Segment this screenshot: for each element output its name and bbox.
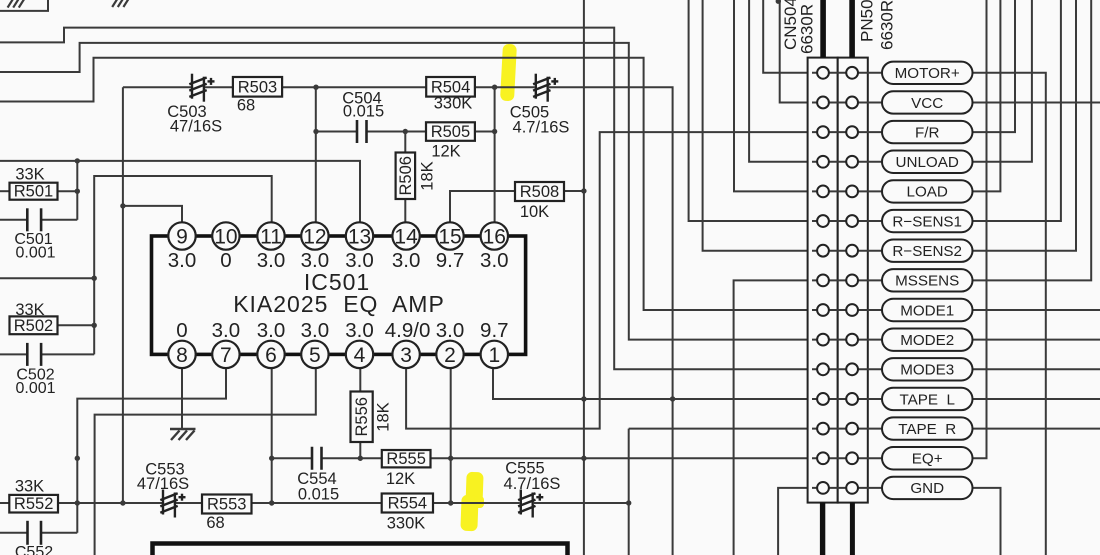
MODE2 label pill xyxy=(882,328,973,350)
svg-text:33K: 33K xyxy=(15,301,44,319)
capacitor C552 xyxy=(28,521,42,545)
wire R-SENS2 right xyxy=(973,0,1077,251)
svg-text:PN504: PN504 xyxy=(858,0,877,42)
svg-text:F/R: F/R xyxy=(915,124,939,141)
svg-text:16: 16 xyxy=(483,226,506,249)
capacitor C554 xyxy=(312,447,322,470)
GND label pill xyxy=(882,477,973,499)
node TAPE R row wire xyxy=(812,428,882,430)
wire C554 right to R555 xyxy=(322,457,382,459)
svg-text:3.0: 3.0 xyxy=(480,249,509,272)
svg-text:4.7/16S: 4.7/16S xyxy=(513,119,570,137)
capacitor C503 xyxy=(189,74,214,102)
wire pin 1 to TAPE L row xyxy=(493,368,818,399)
wire main top channel xyxy=(123,86,191,88)
svg-text:330K: 330K xyxy=(434,95,473,113)
junction dot top edge xyxy=(776,0,781,4)
resistor R504 xyxy=(426,77,475,97)
wire bus W3 (to MODE1) xyxy=(0,58,818,310)
node MSSENS row wire xyxy=(812,279,882,281)
wire R502 right xyxy=(58,324,95,326)
F/R label pill xyxy=(882,121,973,143)
wire UNLOAD right xyxy=(973,0,1032,162)
wire bottom channel c xyxy=(252,502,382,504)
svg-text:MODE2: MODE2 xyxy=(900,332,954,349)
wire bottom channel a xyxy=(58,502,162,504)
svg-text:9: 9 xyxy=(176,226,188,249)
resistor R554 xyxy=(382,494,433,513)
junction dot xyxy=(92,276,97,281)
wire pin 8 to ground xyxy=(181,368,183,429)
svg-text:3: 3 xyxy=(400,344,412,367)
wire MODE2 right xyxy=(973,339,1100,341)
junction dot xyxy=(313,129,318,134)
svg-text:MOTOR+: MOTOR+ xyxy=(895,65,960,82)
MODE1 contacts xyxy=(817,304,829,316)
wire main top channel c (to TAPE L vert) xyxy=(549,87,673,555)
wire F/R right xyxy=(973,0,1016,132)
wire R556 bottom xyxy=(359,442,361,458)
pin 7 xyxy=(212,341,239,368)
svg-text:0.015: 0.015 xyxy=(343,103,384,121)
wire TAPE R row xyxy=(629,428,818,430)
junction dot xyxy=(670,396,675,401)
wire R501 right xyxy=(58,190,78,192)
junction dot xyxy=(269,500,274,505)
junction dot xyxy=(492,129,497,134)
node R-SENS2 row wire xyxy=(812,250,882,252)
pin 8 xyxy=(168,341,195,368)
svg-text:R552: R552 xyxy=(14,495,53,513)
svg-text:3.0: 3.0 xyxy=(301,319,330,342)
MOTOR+ label pill xyxy=(882,62,973,84)
MODE1 label pill xyxy=(882,299,973,321)
wire bottom channel b xyxy=(176,502,202,504)
svg-text:VCC: VCC xyxy=(911,95,943,112)
wire stage2 vertical / pin 11 line xyxy=(94,176,272,354)
wire VCC right xyxy=(973,101,1100,103)
svg-text:0: 0 xyxy=(176,319,187,342)
svg-text:11: 11 xyxy=(260,226,282,249)
junction dot xyxy=(492,85,497,90)
wire MSSENS left xyxy=(734,280,818,555)
svg-text:68: 68 xyxy=(206,514,224,532)
svg-text:R506: R506 xyxy=(397,156,415,195)
pin 2 xyxy=(436,341,463,368)
capacitor C555 xyxy=(518,490,543,518)
svg-text:14: 14 xyxy=(394,226,418,249)
wire MODE1 right xyxy=(973,309,1100,311)
svg-text:7: 7 xyxy=(220,344,232,367)
pin 14 xyxy=(392,222,419,249)
junction dot xyxy=(75,189,80,194)
wire bottom channel d xyxy=(433,502,520,504)
junction dot xyxy=(581,456,586,461)
svg-text:12K: 12K xyxy=(386,470,415,488)
svg-text:12K: 12K xyxy=(431,143,460,161)
cable bar CN504 bottom xyxy=(820,503,825,555)
capacitor C553 xyxy=(160,490,185,518)
VCC contacts xyxy=(817,97,829,109)
LOAD label pill xyxy=(882,180,973,202)
svg-text:3.0: 3.0 xyxy=(212,319,241,342)
R-SENS2 label pill xyxy=(882,240,973,262)
wire node stage1 vertical xyxy=(76,161,78,220)
wire pin 12 vertical xyxy=(315,87,317,223)
svg-text:R553: R553 xyxy=(207,496,246,514)
resistor R555 xyxy=(382,450,431,467)
UNLOAD contacts xyxy=(817,156,829,168)
capacitor C504 xyxy=(357,120,367,143)
LOAD contacts xyxy=(817,186,829,198)
wire MSSENS right xyxy=(973,0,1092,280)
wire R-SENS2 left xyxy=(703,0,818,251)
svg-text:3.0: 3.0 xyxy=(392,249,421,272)
junction dot xyxy=(75,456,80,461)
junction dot xyxy=(313,85,318,90)
svg-text:2: 2 xyxy=(444,344,456,367)
resistor R556 xyxy=(351,392,373,443)
MOTOR+ contacts xyxy=(817,67,829,79)
R-SENS1 label pill xyxy=(882,210,973,232)
wire pin 9 feed xyxy=(123,206,182,223)
wire MODE3 right xyxy=(973,368,1100,370)
R-SENS2 contacts xyxy=(817,245,829,257)
svg-text:4.7/16S: 4.7/16S xyxy=(504,475,561,493)
wire pin 7 run xyxy=(77,368,226,533)
svg-text:LOAD: LOAD xyxy=(907,184,948,201)
MODE3 label pill xyxy=(882,358,973,380)
node MODE1 row wire xyxy=(812,309,882,311)
junction dot xyxy=(581,188,586,193)
wire VCC left xyxy=(780,0,818,102)
svg-text:1: 1 xyxy=(488,344,500,367)
EQ+ label pill xyxy=(882,447,973,469)
wire main top channel b xyxy=(205,86,535,88)
node R-SENS1 row wire xyxy=(812,220,882,222)
wire bottom channel e xyxy=(534,502,629,504)
wire R506 top xyxy=(404,132,406,153)
wire UNLOAD left xyxy=(749,0,818,162)
svg-text:GND: GND xyxy=(910,480,944,497)
node VCC row wire xyxy=(812,101,882,103)
wire C504 right xyxy=(367,131,427,133)
ground pin 8 xyxy=(170,429,196,440)
MSSENS contacts xyxy=(817,274,829,286)
wire C501 left xyxy=(0,219,27,221)
wire bus W1 (to MODE3) xyxy=(0,28,818,370)
pin 10 xyxy=(212,222,239,249)
junction dot xyxy=(448,500,453,505)
wire R508 right xyxy=(564,190,584,192)
svg-text:0.001: 0.001 xyxy=(15,245,55,262)
junction dot xyxy=(581,396,586,401)
pin 5 xyxy=(301,341,328,368)
ground hatch top-left 2 xyxy=(112,0,129,7)
svg-text:EQ+: EQ+ xyxy=(912,451,943,468)
svg-text:R−SENS2: R−SENS2 xyxy=(892,243,962,260)
wire feed to R502 node xyxy=(0,277,94,279)
wire C501 right xyxy=(41,219,77,221)
svg-text:18K: 18K xyxy=(375,402,393,431)
wire C504 line xyxy=(316,131,357,133)
svg-text:6: 6 xyxy=(265,344,277,367)
MSSENS label pill xyxy=(882,269,973,291)
svg-text:R501: R501 xyxy=(14,183,53,201)
node UNLOAD row wire xyxy=(812,161,882,163)
svg-text:3.0: 3.0 xyxy=(345,249,374,272)
wire R555 right to EQ+ row xyxy=(431,457,819,459)
junction dot xyxy=(626,500,631,505)
svg-text:R505: R505 xyxy=(431,123,470,141)
GND contacts xyxy=(817,482,829,494)
TAPE R label pill xyxy=(882,417,973,439)
TAPE R contacts xyxy=(817,423,829,435)
wire R552 left stub xyxy=(0,502,9,504)
svg-text:8: 8 xyxy=(176,344,188,367)
node MODE2 row wire xyxy=(812,339,882,341)
wire pin 15 to R508 xyxy=(450,191,515,223)
pin 12 xyxy=(301,222,328,249)
svg-text:15: 15 xyxy=(438,226,461,249)
svg-text:4.9/0: 4.9/0 xyxy=(385,319,431,342)
pin 16 xyxy=(481,222,508,249)
svg-text:MSSENS: MSSENS xyxy=(895,273,959,290)
svg-text:6630R: 6630R xyxy=(798,4,817,54)
node TAPE L row wire xyxy=(812,398,882,400)
MODE2 contacts xyxy=(817,334,829,346)
pin 9 xyxy=(168,222,195,249)
junction dot xyxy=(120,500,125,505)
svg-text:9.7: 9.7 xyxy=(436,249,465,272)
svg-text:33K: 33K xyxy=(15,478,44,496)
svg-text:330K: 330K xyxy=(387,515,426,533)
junction dot xyxy=(75,158,80,163)
svg-text:R555: R555 xyxy=(386,450,425,468)
wire GND right xyxy=(973,488,1001,555)
svg-text:18K: 18K xyxy=(419,161,437,190)
resistor R502 xyxy=(10,316,58,334)
svg-text:0: 0 xyxy=(220,249,231,272)
wire LOAD right xyxy=(973,0,1001,191)
node MOTOR+ row wire xyxy=(812,72,882,74)
svg-text:0.015: 0.015 xyxy=(298,486,339,504)
wire C552 right xyxy=(41,532,77,534)
capacitor C501 xyxy=(27,208,41,231)
resistor R552 xyxy=(9,495,58,513)
wire MOTOR+ right xyxy=(973,73,1046,555)
svg-text:MODE1: MODE1 xyxy=(900,302,954,319)
junction dot xyxy=(403,129,408,134)
op-amp IC501 box xyxy=(152,236,526,354)
svg-text:UNLOAD: UNLOAD xyxy=(896,154,959,171)
resistor R503 xyxy=(233,77,282,97)
cable bar CN504 top xyxy=(820,0,826,58)
svg-text:3.0: 3.0 xyxy=(436,319,465,342)
wire R-SENS1 left xyxy=(689,0,818,221)
svg-text:3.0: 3.0 xyxy=(257,319,286,342)
wire MOTOR+ left xyxy=(763,0,818,73)
cable bar PN504 bottom xyxy=(850,503,855,555)
wire pin 5 run xyxy=(95,368,316,555)
svg-text:R−SENS1: R−SENS1 xyxy=(892,213,962,230)
highlighter mark bottom xyxy=(465,472,483,509)
svg-text:MODE3: MODE3 xyxy=(900,362,954,379)
svg-text:3.0: 3.0 xyxy=(257,249,286,272)
VCC label pill xyxy=(882,91,973,113)
resistor R501 xyxy=(10,183,58,200)
wire pin 2 vertical xyxy=(450,368,452,503)
node LOAD row wire xyxy=(812,190,882,192)
svg-text:TAPE L: TAPE L xyxy=(899,391,954,408)
UNLOAD label pill xyxy=(882,151,973,173)
F/R contacts xyxy=(817,126,829,138)
svg-text:6630R: 6630R xyxy=(878,0,897,50)
cable bar PN504 top xyxy=(849,0,855,58)
svg-text:33K: 33K xyxy=(15,166,44,184)
TAPE L label pill xyxy=(882,388,973,410)
svg-text:R502: R502 xyxy=(14,317,53,335)
pin 13 xyxy=(346,222,373,249)
wire pin 4 to R556 xyxy=(359,368,361,392)
junction dot xyxy=(358,456,363,461)
wire C552 left xyxy=(0,532,28,534)
resistor R506 xyxy=(396,153,416,200)
capacitor C502 xyxy=(27,343,41,366)
wire R505 right xyxy=(475,131,495,133)
wire LOAD left xyxy=(734,0,818,191)
pin 15 xyxy=(436,222,463,249)
wire C502 right xyxy=(41,353,94,355)
svg-text:13: 13 xyxy=(348,226,371,249)
MODE3 contacts xyxy=(817,363,829,375)
svg-text:12: 12 xyxy=(303,226,326,249)
svg-text:KIA2025 EQ AMP: KIA2025 EQ AMP xyxy=(233,291,445,317)
svg-text:4: 4 xyxy=(354,344,366,367)
svg-text:47/16S: 47/16S xyxy=(170,118,222,136)
wire bus to pin 13 xyxy=(0,161,360,223)
node GND row wire xyxy=(812,487,882,489)
wire C502 left xyxy=(0,353,27,355)
wire EQ+ right xyxy=(973,0,987,458)
wire bus W2 (to MODE2) xyxy=(0,43,818,340)
svg-text:68: 68 xyxy=(237,97,255,115)
pin 11 xyxy=(257,222,284,249)
svg-text:TAPE R: TAPE R xyxy=(898,421,956,438)
wire pin 6 vertical xyxy=(271,368,273,503)
svg-text:9.7: 9.7 xyxy=(480,319,509,342)
svg-text:R554: R554 xyxy=(388,495,427,513)
wire R501 left stub xyxy=(0,190,10,192)
svg-text:10: 10 xyxy=(214,226,237,249)
wire GND left xyxy=(778,488,818,555)
junction dot xyxy=(92,323,97,328)
wire pin 16 vertical xyxy=(494,87,496,223)
svg-text:3.0: 3.0 xyxy=(301,249,330,272)
connector CN504 box left column xyxy=(808,58,838,503)
junction dot xyxy=(120,203,125,208)
junction dot xyxy=(75,500,80,505)
resistor R508 xyxy=(515,182,564,201)
partial box top-left xyxy=(0,0,48,11)
junction dot xyxy=(269,456,274,461)
pin 4 xyxy=(346,341,373,368)
svg-text:10K: 10K xyxy=(520,203,549,221)
junction dot xyxy=(448,456,453,461)
wire TAPE L right xyxy=(973,398,1100,400)
svg-text:3.0: 3.0 xyxy=(345,319,374,342)
TAPE L contacts xyxy=(817,393,829,405)
node MODE3 row wire xyxy=(812,368,882,370)
wire R-SENS1 right xyxy=(973,0,1061,221)
capacitor C505 xyxy=(533,74,558,102)
pin 3 xyxy=(392,341,419,368)
resistor R505 xyxy=(426,122,475,141)
svg-text:R503: R503 xyxy=(238,78,277,96)
wire C554 line xyxy=(272,457,312,459)
highlighter mark top xyxy=(460,44,517,532)
ground hatch top-left 1 xyxy=(8,0,25,8)
svg-text:C552: C552 xyxy=(15,544,53,555)
svg-text:5: 5 xyxy=(309,344,321,367)
svg-text:0.001: 0.001 xyxy=(15,380,55,397)
wire TAPE R right xyxy=(973,428,1100,430)
wire R506 bottom to pin 14 xyxy=(404,199,406,223)
svg-text:R556: R556 xyxy=(353,397,371,436)
EQ+ contacts xyxy=(817,452,829,464)
wire R508 node vertical xyxy=(583,0,585,555)
bottom IC box (partial) xyxy=(153,544,568,555)
resistor R553 xyxy=(202,495,252,514)
node EQ+ row wire xyxy=(812,457,882,459)
wire C503 left vertical xyxy=(122,87,124,503)
wire pin 3 to F/R xyxy=(406,132,818,429)
wire TAPE R net vertical xyxy=(628,429,630,555)
svg-text:R508: R508 xyxy=(520,183,559,201)
node F/R row wire xyxy=(812,131,882,133)
pin 1 xyxy=(481,341,508,368)
pin 6 xyxy=(257,341,284,368)
connector PN504 box right column xyxy=(838,58,868,503)
R-SENS1 contacts xyxy=(817,215,829,227)
svg-text:3.0: 3.0 xyxy=(168,249,197,272)
